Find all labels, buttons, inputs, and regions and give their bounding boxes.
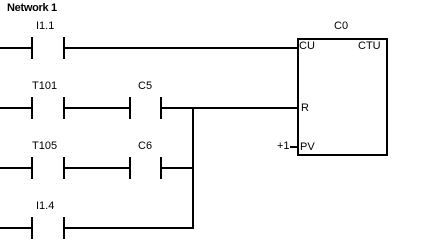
wire vertical branch: [192, 107, 194, 229]
pin label CU: [299, 41, 315, 52]
wire rung2 left: [0, 107, 31, 109]
contact I1.1: [31, 37, 33, 59]
wire rung3 left: [0, 167, 31, 169]
wire rung1 left: [0, 47, 31, 49]
counter U1 box: [297, 38, 388, 156]
wire rung3 mid: [65, 167, 129, 169]
pin label R: [301, 103, 309, 114]
wire PV stub: [290, 146, 298, 148]
wire rung3 right: [162, 167, 194, 169]
pin label CTU: [358, 41, 381, 52]
wire rung4 right: [65, 227, 194, 229]
contact C5: [129, 97, 131, 119]
wire rung4 left: [0, 227, 31, 229]
contact I1.4: [31, 217, 33, 239]
wire rung2 mid: [65, 107, 129, 109]
contact T101: [31, 97, 33, 119]
wire rung1 right: [65, 47, 299, 49]
label C0: [334, 21, 348, 32]
wire rung2 right: [162, 107, 299, 109]
value +1: [277, 141, 290, 152]
pin label PV: [300, 142, 315, 153]
contact C6: [129, 157, 131, 179]
contact T105: [31, 157, 33, 179]
network title: [7, 3, 57, 14]
